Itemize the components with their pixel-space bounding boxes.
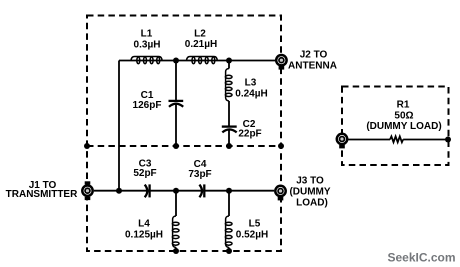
capacitor C4	[199, 184, 204, 197]
svg-text:0.52µH: 0.52µH	[236, 230, 268, 241]
inductor L1	[131, 57, 162, 64]
node lower rail left branch	[116, 188, 122, 194]
internal common dashed line	[87, 145, 281, 147]
node internal line C1	[173, 143, 179, 149]
svg-text:0.3µH: 0.3µH	[134, 40, 161, 51]
inductor L2	[187, 57, 218, 64]
svg-text:0.125µH: 0.125µH	[125, 230, 163, 241]
node internal line left	[84, 143, 90, 149]
svg-text:(DUMMY LOAD): (DUMMY LOAD)	[366, 121, 441, 132]
wire dummy load	[348, 139, 448, 141]
svg-text:J2 TO: J2 TO	[300, 50, 328, 61]
node top rail junction 1	[173, 58, 179, 64]
capacitor C2	[222, 127, 237, 133]
wire left branch	[118, 61, 120, 191]
wire L5 branch	[228, 191, 230, 251]
svg-text:LOAD): LOAD)	[296, 198, 328, 209]
svg-text:ANTENNA: ANTENNA	[288, 61, 337, 72]
svg-text:22pF: 22pF	[238, 129, 261, 140]
wire C1 branch	[175, 61, 177, 147]
inductor L4	[172, 216, 179, 248]
svg-text:L1: L1	[141, 29, 153, 40]
svg-text:SeekIC.com: SeekIC.com	[387, 251, 455, 265]
svg-text:TRANSMITTER: TRANSMITTER	[6, 189, 78, 200]
inductor L3	[225, 69, 232, 102]
node bottom edge L4	[173, 248, 179, 254]
wire lower rail J1 to J3	[94, 190, 274, 192]
node top rail junction 2	[226, 58, 232, 64]
svg-text:52pF: 52pF	[133, 168, 156, 179]
wire L3/C2 branch top	[228, 61, 230, 69]
connector J4 dummy load jack	[337, 134, 347, 149]
node bottom edge L5	[226, 248, 232, 254]
wire L4 branch	[175, 191, 177, 251]
wire top rail	[119, 60, 275, 62]
svg-text:R1: R1	[397, 100, 410, 111]
wire L3 to C2	[228, 101, 230, 146]
node internal line C2	[226, 143, 232, 149]
node lower rail L5	[226, 188, 232, 194]
svg-text:50Ω: 50Ω	[394, 111, 413, 122]
svg-text:J3 TO: J3 TO	[296, 176, 324, 187]
dummy load dashed box	[342, 87, 449, 166]
enclosure dashed box (tuner)	[87, 16, 281, 252]
svg-text:L2: L2	[194, 29, 206, 40]
connector J3	[275, 186, 285, 201]
svg-text:L3: L3	[245, 78, 257, 89]
svg-text:0.21µH: 0.21µH	[185, 39, 217, 50]
svg-text:L4: L4	[138, 219, 150, 230]
svg-text:73pF: 73pF	[188, 169, 211, 180]
capacitor C3	[145, 184, 150, 197]
capacitor C1	[169, 101, 184, 107]
svg-text:0.24µH: 0.24µH	[235, 89, 267, 100]
svg-text:L5: L5	[249, 219, 261, 230]
svg-text:(DUMMY: (DUMMY	[289, 187, 330, 198]
node internal line right	[278, 143, 284, 149]
resistor R1	[390, 136, 403, 142]
node dummy load right	[445, 137, 451, 143]
connector J1	[82, 181, 92, 200]
inductor L5	[225, 216, 232, 248]
svg-text:126pF: 126pF	[133, 100, 162, 111]
connector J2	[276, 55, 286, 70]
node lower rail L4	[173, 188, 179, 194]
